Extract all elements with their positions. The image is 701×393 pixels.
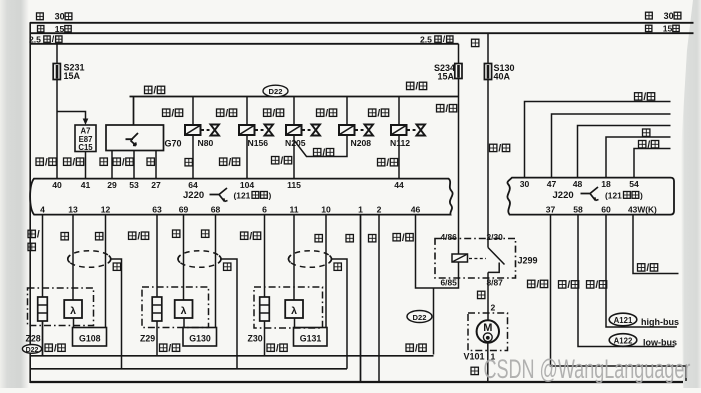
svg-text:10: 10 [321,204,331,214]
wire green/yellow bus [130,97,459,126]
label N112 [390,138,410,148]
svg-text:1: 1 [358,204,363,214]
svg-text:60: 60 [601,204,611,214]
svg-text:/: / [228,157,231,168]
svg-text:/: / [386,158,389,169]
label brown/grey on bend [314,148,334,159]
wire bus drop to N112 [398,97,400,126]
svg-text:/: / [272,108,275,119]
svg-text:54: 54 [629,179,639,189]
solenoid N205 [286,125,302,135]
wire ECU pin47 staircase [552,114,671,178]
bus line red 30 (top) [30,22,694,24]
label 6/85 [441,277,458,287]
motor V101 [477,320,499,342]
svg-text:J220: J220 [553,190,574,201]
wire N80 to pin 64 [192,135,194,179]
label box G108 [73,328,107,347]
wire G70 pin27 [155,151,157,179]
wire junction to A7 [57,112,86,121]
label black/yellow (pin40 wire) [36,157,56,168]
label (121-pin) right box [605,190,643,200]
node D22 oval near pump [407,311,432,323]
label black shield G131 [334,263,341,270]
svg-text:/: / [153,86,156,97]
heater element Z30 [260,297,270,321]
label black shield G108 [113,263,120,270]
label 4/86 [441,232,458,242]
label S234 15A [434,63,455,82]
relay coil J299 [452,254,468,262]
svg-text:/: / [280,156,283,167]
svg-text:40A: 40A [494,72,511,82]
wire ECU pin48 staircase [578,126,671,178]
valve symbol N80 [201,125,219,136]
label black 15-line right [646,24,680,34]
label red/white (pin4) [28,230,40,251]
svg-text:/: / [122,157,125,168]
label green/yellow at ground bus end [406,343,426,354]
svg-text:15: 15 [663,24,673,34]
svg-text:/: / [646,263,649,274]
ECU J220 right box [507,178,674,215]
label brown (pin2) [369,235,376,242]
label red 30-line left [37,12,72,22]
sensor housing box Z28/G108 [28,288,94,326]
label J299 [518,256,538,266]
svg-text:47: 47 [547,179,557,189]
label J220 (right box) [553,190,574,201]
svg-text:69: 69 [179,204,189,214]
frame left border [29,22,31,383]
wire pin60 to high-bus [606,215,677,327]
wire lambda out G108 [73,318,75,328]
svg-text:Z30: Z30 [248,334,263,344]
svg-text:11: 11 [289,204,298,214]
label red on S130 wire [472,39,479,46]
label box G131 [294,328,328,347]
label black/grey (pin41 wire) [64,157,84,168]
sensor housing box Z29/G130 [142,287,209,328]
ECU left top pin numbers [52,180,404,190]
svg-text:115: 115 [287,180,301,190]
svg-text:N112: N112 [390,138,410,148]
node D22 oval bottom left [22,345,41,354]
connector A7 E87 C15 [75,125,96,152]
label black shield G130 [224,263,231,270]
label Z28 [26,334,41,344]
ECU J220 left box [30,179,453,215]
svg-text:N80: N80 [198,138,214,148]
svg-text:/: / [402,233,405,244]
svg-text:46: 46 [411,204,421,214]
relay J299 box [435,239,516,279]
svg-text:2/30: 2/30 [487,232,504,242]
label 2.5 green/black right [420,34,453,44]
svg-text:λ: λ [291,305,297,317]
label black/purple (pin30 wire) [635,92,655,103]
wire pin to heater Z29 [156,215,158,297]
wire pin shield G131 [325,215,327,328]
svg-text:15: 15 [55,24,65,34]
wire G70 pin29 [111,151,113,179]
svg-text:43W(K): 43W(K) [628,204,657,214]
air mass meter G70 [106,125,164,151]
svg-text:15A: 15A [438,72,455,82]
wire ground riser to coil return [433,288,435,355]
svg-text:37: 37 [546,204,556,214]
solenoid N156 [239,125,255,135]
right page edge shading [681,0,701,388]
svg-text:(121: (121 [605,190,622,200]
wire pin shield G108 [105,215,107,328]
svg-text:D22: D22 [269,87,283,96]
label 2/30 [487,232,504,242]
label yellow (pin27) [147,158,154,165]
svg-text:/: / [445,104,448,115]
wire G70 pin53 [133,151,135,179]
watermark [484,353,691,383]
solenoid N112 [391,125,407,135]
svg-text:6/85: 6/85 [441,277,458,287]
label green/yellow Z30 [267,343,287,354]
wire ECU pin18 staircase [606,137,671,178]
label black 15-line left [38,24,72,34]
wire fuse S231 to ECU pin 40 [56,80,58,179]
label terminal 2 [491,303,496,313]
wire ECU pin30 staircase [525,102,671,178]
label green/yellow on 4/86 wire [437,104,457,115]
label purple (pin64) [185,159,192,166]
svg-text:41: 41 [81,180,91,190]
svg-text:44: 44 [394,180,404,190]
lambda probe G130 [175,300,193,318]
svg-text:8/87: 8/87 [487,277,504,287]
svg-text:/: / [322,148,325,159]
svg-text:Z29: Z29 [140,334,155,344]
label green/yellow above N80 [163,108,183,119]
svg-text:58: 58 [573,204,583,214]
label terminal 1 [491,352,496,362]
lambda probe G108 [64,300,82,318]
sensor housing box Z30/G131 [254,287,323,328]
svg-text:J220: J220 [183,190,204,201]
svg-text:/: / [643,92,646,103]
label 2.5 green/black left [29,34,62,44]
label red/black (pin60) [587,280,607,291]
svg-text:/: / [325,108,328,119]
label brown (pin1) [346,235,353,242]
label purple (pin12) [96,233,103,240]
heater element Z29 [152,297,162,321]
svg-text:2.5: 2.5 [420,34,432,44]
svg-text:/: / [276,343,279,354]
ground bus green/yellow [30,355,434,357]
svg-text:A121: A121 [614,316,633,325]
svg-text:low-bus: low-bus [643,337,677,347]
svg-text:29: 29 [107,180,117,190]
label brown/black (pin6) [241,231,261,242]
svg-text:/: / [415,82,418,93]
svg-text:2: 2 [377,204,382,214]
label red/brown (pin58) [559,280,579,291]
svg-text:/: / [415,343,418,354]
label green/yellow right of N112 [407,82,427,93]
label N156 [248,138,269,148]
svg-text:/: / [72,157,75,168]
label box G130 [183,328,217,347]
label green (pin29) [100,158,107,165]
svg-text:30: 30 [664,11,674,21]
wire 2.5green/black line to fuse S231 [56,44,58,64]
arrowhead into A7 [83,119,89,126]
wire N112 to pin 44 [398,135,400,179]
svg-text:68: 68 [211,204,221,214]
shield drain bus [30,368,347,370]
label red/black on 2/30 wire [490,144,510,155]
label green/yellow Z28 [45,343,65,354]
svg-text:N156: N156 [248,138,269,148]
label black (8/87 wire) [478,291,485,298]
svg-text:/: / [225,108,228,119]
svg-text:CSDN @WangLanguager: CSDN @WangLanguager [484,353,691,383]
wire pin to sensor G108 [72,215,74,300]
wire Z30 to ground bus [264,321,266,356]
ECU right bottom pin numbers [546,204,657,214]
wire pin2 to bottom strap [378,215,380,382]
svg-text:30: 30 [520,179,530,189]
svg-text:/: / [249,231,252,242]
label green/yellow (pin37) [528,280,548,291]
fuse S130 [484,64,491,80]
node A121 high-bus [609,313,679,327]
svg-text:/: / [595,280,598,291]
label brown/grey (pin115) [272,156,292,167]
valve symbol N208 [355,125,373,136]
label grey (pin68) [202,230,209,237]
ECU right top pin numbers [520,179,639,189]
svg-text:64: 64 [188,180,198,190]
wire pin to heater Z30 [264,215,266,297]
wire pin43W to right [633,215,679,274]
svg-text:D22: D22 [26,347,39,354]
wire S234 to relay 4/86 [458,79,460,255]
frame bottom border [30,381,683,383]
label J220 (left box) [183,190,204,201]
label green/yellow above N208 [317,108,337,119]
svg-text:D22: D22 [413,313,427,322]
svg-text:/: / [171,108,174,119]
svg-text:N208: N208 [351,138,372,148]
svg-text:2.5: 2.5 [29,34,41,44]
wire 8/87 to pump [487,278,489,321]
wire bus drop to N80 [192,97,194,126]
label yellow/white (pin104) [220,157,240,168]
wire ECU pin54 staircase [634,149,671,178]
label red 30-line right [646,11,681,21]
shield ellipse G108 [68,251,111,268]
svg-text:63: 63 [152,204,162,214]
wire bus drop to N205 [293,97,295,126]
label blue (pin69) [173,230,180,237]
svg-text:/: / [168,343,171,354]
svg-text:6: 6 [262,204,267,214]
label green/yellow above N112 [369,108,389,119]
svg-text:/: / [54,343,57,354]
ECU symbol (right box) [581,187,599,201]
node A122 low-bus [609,334,677,348]
label red (pin13) [61,233,68,240]
svg-text:): ) [269,190,272,200]
svg-text:): ) [640,190,643,200]
wire bus drop to N156 [246,97,248,126]
label N208 [351,138,372,148]
label 8/87 [487,277,504,287]
wire shield drain G108 [111,259,122,369]
label yellow (pin18 wire) [643,129,650,136]
svg-text:30: 30 [55,12,65,22]
label S231 15A [64,63,85,81]
svg-text:G130: G130 [189,334,211,344]
label G70 [165,139,182,149]
svg-text:(121: (121 [234,190,251,200]
svg-text:40: 40 [52,180,62,190]
solenoid N80 [185,125,201,135]
ECU left bottom pin numbers [40,204,420,214]
label green/black (pin43W) [638,263,658,274]
svg-text:2: 2 [491,303,496,313]
svg-text:4: 4 [40,204,45,214]
relay switch J299 [488,240,505,278]
wire lambda out G130 [183,318,185,328]
wire relay coil link dashed [469,258,486,260]
svg-text:53: 53 [129,180,139,190]
wire pin shield G130 [215,215,217,328]
bus line 2.5 green/black [30,43,459,45]
svg-text:high-bus: high-bus [641,317,679,327]
svg-text:λ: λ [70,305,76,317]
wire pin1 to bottom strap [360,215,362,382]
wire N156 to pin 104 [246,135,248,179]
label brown (pump wire) [471,367,478,374]
svg-text:/: / [567,280,570,291]
wire shield drain G131 [332,259,348,369]
fuse S234 [455,64,462,79]
wire N208 bend to N205 wire [294,135,347,157]
svg-text:G108: G108 [79,334,101,344]
svg-text:Z28: Z28 [26,334,41,344]
label (121-pin) left box [234,190,272,200]
valve symbol N205 [302,125,320,136]
label white/blue (pin54 wire) [639,140,659,151]
svg-text:G70: G70 [165,139,182,149]
heater element Z28 [38,297,48,321]
left page edge shading [0,0,29,388]
svg-text:15A: 15A [64,71,81,81]
label S130 40A [494,63,515,82]
shield ellipse G131 [288,251,331,268]
label yellow/green (pin44) [378,158,398,169]
wire pin to sensor G130 [183,215,185,300]
svg-text:27: 27 [151,180,161,190]
svg-text:J299: J299 [518,256,538,266]
wire pin to sensor G131 [293,215,295,300]
label brown/black (pin63) [129,231,149,242]
wire shield drain G130 [221,259,237,369]
label green/yellow Z29 [160,343,180,354]
svg-text:/: / [45,157,48,168]
bus line black 15 [30,32,694,34]
svg-text:λ: λ [181,305,187,317]
wire pin58 to low-bus [578,215,675,347]
valve symbol N112 [407,125,425,136]
svg-text:18: 18 [601,179,611,189]
label Z30 [248,334,263,344]
wire N205 to pin 115 [293,135,295,179]
svg-text:13: 13 [68,204,78,214]
label purple (pin10) [315,235,322,242]
wire lambda out G131 [294,318,296,328]
wire Z28 to ground bus [42,321,44,356]
svg-text:/: / [647,140,650,151]
svg-text:/: / [536,280,539,291]
svg-text:104: 104 [240,180,255,190]
wire Z29 to ground bus [156,321,158,356]
svg-text:/: / [137,231,140,242]
svg-text:A122: A122 [614,336,633,345]
valve symbol N156 [255,125,273,136]
node D22 oval on bus [263,85,288,97]
pump V101 box [468,313,508,351]
svg-text:/: / [377,108,380,119]
label green/yellow at G70 riser [145,86,165,97]
ECU symbol (left box) [210,188,228,202]
svg-text:/: / [498,144,501,155]
label blue/grey (pin46) [393,233,413,244]
shield ellipse G130 [178,251,221,268]
label yellow/green (pin53) [113,157,133,168]
label green/yellow above N156 [217,108,237,119]
fuse S231 [53,64,60,80]
solenoid N208 [339,125,355,135]
svg-text:12: 12 [101,204,111,214]
wire A7 to ECU pin 41 [85,152,87,179]
label green/yellow above N205 [264,108,284,119]
label Z29 [140,334,155,344]
lambda probe G131 [285,300,303,318]
svg-text:G131: G131 [300,334,322,344]
label N205 [285,138,306,148]
wire 15-line to fuse S130 [487,33,489,64]
svg-text:4/86: 4/86 [441,232,458,242]
wire coil to 6/85 to pin46 [416,215,459,288]
wire S130 to relay 2/30 [487,80,489,241]
wire pump to bottom strap [487,343,489,383]
svg-text:V101: V101 [464,352,485,362]
wire bus drop to N208 [346,97,348,126]
label V101 [464,352,485,362]
wire pin to heater Z28 [42,215,44,297]
svg-text:48: 48 [573,179,583,189]
svg-text:/: / [37,230,40,241]
label N80 [198,138,214,148]
svg-text:C15: C15 [78,143,93,152]
wire pin37 to ground strap [551,215,687,381]
wire 2.5green/black to fuse S234 [458,44,460,64]
